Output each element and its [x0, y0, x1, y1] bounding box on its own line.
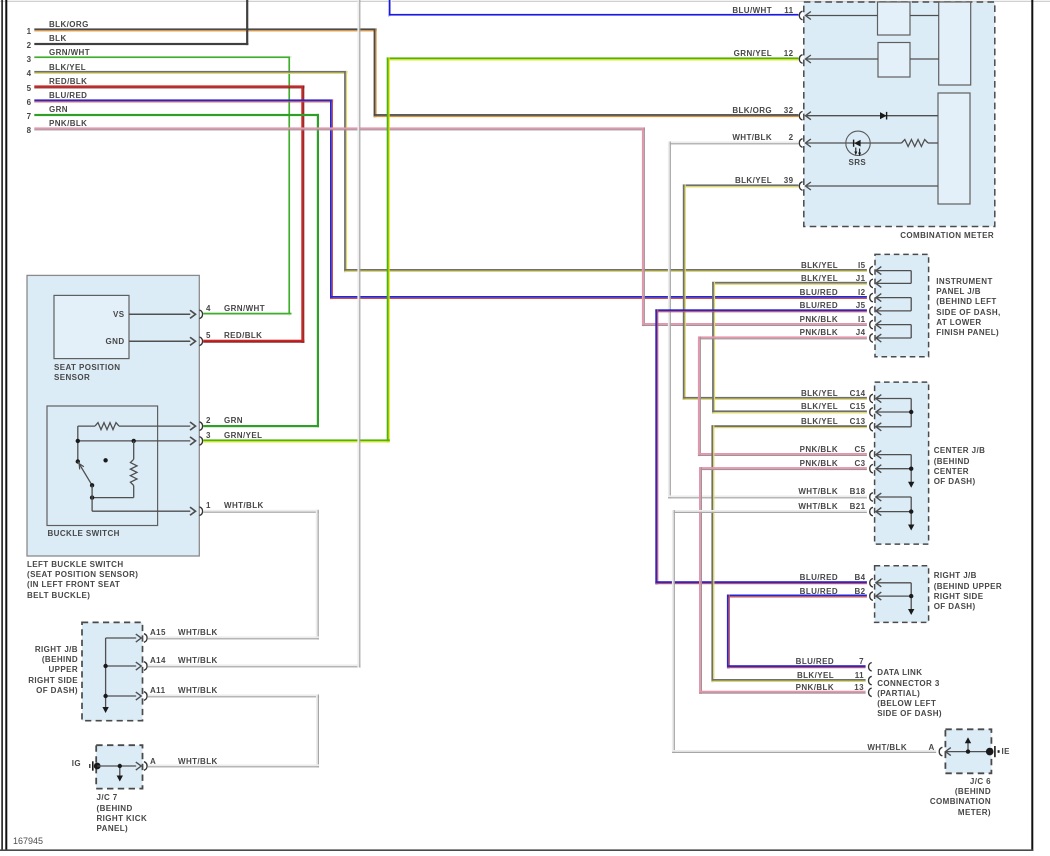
label left box pin 2 number — [206, 416, 211, 425]
CM resistor on pin 2 line — [902, 140, 929, 147]
label CJB pin C5 color — [800, 445, 838, 454]
label left box pin 3 color — [224, 431, 262, 440]
connector pin CM 32 — [799, 111, 811, 120]
connector pin IPJB J4 — [870, 334, 882, 343]
connector pin IPJB J5 — [870, 307, 882, 316]
CJB internal bracket B18-B21 with ground arrow — [876, 497, 915, 531]
connector pin CM 11 — [799, 11, 811, 20]
CM pin 2 internal line right of resistor — [928, 142, 938, 144]
wire BLK/YEL CJB C15 lead horizontal — [712, 410, 867, 413]
label wire 5 color — [49, 77, 87, 86]
CM diode on pin 32 line — [880, 112, 887, 120]
label left block name line 3 — [27, 580, 120, 589]
wire BLK #2 to page top vertical — [246, 0, 248, 45]
wire BLK/YEL #4 horizontal — [34, 71, 347, 74]
connector pin IPJB I5 — [870, 266, 882, 275]
label SEAT POSITION — [54, 363, 120, 372]
connector pin buckle 3 — [190, 437, 202, 446]
label J/C7 name line 3 — [97, 814, 148, 823]
label CM pin 32 color — [732, 106, 772, 115]
wire GRN/WHT #3 horizontal — [34, 56, 291, 59]
label CM pin 2 color — [732, 133, 772, 142]
label CJB pin C14 — [850, 389, 866, 398]
label left box pin 1 color — [224, 501, 264, 510]
label wire 7 color — [49, 105, 68, 114]
label CM pin 12 color — [734, 49, 772, 58]
label CJB name line 3 — [934, 467, 969, 476]
wire RED/BLK #5 to SPS pin5 vertical — [301, 86, 304, 343]
wire WHT/BLK buckle1 to A15 vertical — [316, 510, 319, 640]
wire BLU/WHT CM pin 11 lead horizontal — [389, 14, 799, 17]
connector pin IPJB J1 — [870, 279, 882, 288]
label left box pin 5 number — [206, 331, 211, 340]
CJB junction dot B21 — [909, 509, 913, 513]
label CJB pin B18 — [850, 487, 866, 496]
CM pin 39 internal line — [806, 185, 939, 187]
IPJB internal bracket I2-J5 — [876, 298, 912, 311]
page left border outer line — [5, 0, 7, 851]
label wire 8 number — [27, 126, 32, 135]
wire PNK/BLK IPJB I1 lead horizontal — [642, 323, 867, 326]
label J/C6 pin A color — [867, 743, 907, 752]
label BUCKLE SWITCH — [48, 529, 120, 538]
label J/C6 name line 1 — [970, 777, 991, 786]
label RJB-L pin A11 color — [178, 686, 218, 695]
wire BLK/YEL CJB C13 lead horizontal — [712, 425, 867, 428]
RJB-R internal bracket B4-B2 with ground arrow — [876, 583, 915, 615]
wire WHT/BLK CJB B18 lead horizontal — [668, 495, 867, 498]
buckle switch junction dot left — [76, 439, 80, 443]
label wire 3 color — [49, 48, 90, 57]
connector pin DLC3 7 — [869, 663, 872, 672]
connector pin CJB C14 — [870, 394, 882, 403]
center J/B block — [875, 382, 929, 544]
label CM pin 11 number — [784, 6, 793, 15]
label left box pin 4 color — [224, 304, 265, 313]
wire WHT/BLK CM2 to CJB B18 vertical — [668, 142, 671, 499]
label IPJB pin I1 — [858, 315, 865, 324]
J/C 7 block — [96, 745, 142, 788]
buckle switch lower junction dot — [90, 495, 94, 499]
wire BLK/YEL #4 to IPJB I5 vertical — [344, 71, 347, 272]
wire GRN/WHT #3 to SPS pin4 vertical — [288, 57, 291, 316]
label CM pin 32 number — [784, 106, 794, 115]
label CJB name line 4 — [934, 477, 976, 486]
J/C6 internal line with up arrow — [945, 737, 989, 751]
label COMBINATION METER — [900, 231, 994, 240]
RJB-L pin A15 arc — [144, 634, 147, 643]
right J/B block (right side) — [875, 566, 929, 623]
buckle switch box — [47, 406, 158, 526]
label IPJB pin I2 color — [800, 288, 838, 297]
label CM pin 39 number — [784, 176, 794, 185]
CM internal rect upper small — [878, 2, 911, 35]
label DLC3 name line 3 — [877, 689, 920, 698]
connector pin CM 39 — [799, 182, 811, 191]
seat position sensor box — [54, 295, 129, 358]
connector pin buckle 2 — [190, 422, 202, 431]
connector pin SPS 4 — [190, 310, 202, 319]
label J/C7 pin A color — [178, 757, 218, 766]
wire PNK/BLK IPJB J4 lead horizontal — [698, 336, 867, 339]
CM pin 12 internal line left — [806, 58, 879, 60]
SPS VS output line with arrow — [129, 310, 195, 318]
CM pin 12 internal line right — [910, 58, 939, 60]
label CM pin 11 color — [732, 6, 772, 15]
wire BLK/ORG #1 to CM32 horizontal — [34, 28, 376, 31]
connector pin J/C6 A — [939, 747, 951, 756]
connector pin DLC3 13 — [869, 688, 872, 697]
wire WHT/BLK RJB-L A11 lead horizontal — [148, 694, 319, 697]
connector pin RJB-R B4 — [870, 579, 882, 588]
label RJB-L name line 2 — [42, 655, 78, 664]
CM pin 11 internal line right — [910, 15, 939, 17]
label wire 3 number — [27, 55, 32, 64]
label wire 2 color — [49, 34, 67, 43]
label wire 2 number — [27, 41, 32, 50]
J/C6 junction dot — [966, 749, 970, 753]
buckle switch blade lower dot — [90, 483, 94, 487]
wire RED/BLK #5 horizontal — [34, 85, 304, 88]
wire BLK/YEL CJB C14 lead horizontal — [683, 397, 867, 400]
J/C7 IG power symbol — [90, 761, 101, 770]
connector pin SPS 5 — [190, 337, 202, 346]
CM pin 32 internal line — [806, 115, 939, 117]
wire PNK/BLK DLC3 pin 13 lead horizontal — [699, 691, 866, 694]
wire PNK/BLK C3 to DLC3 13 vertical — [699, 467, 702, 694]
label IG net — [72, 759, 81, 768]
label GND — [106, 337, 125, 346]
label DLC3 name line 5 — [877, 709, 942, 718]
label RJB-L pin A14 — [150, 656, 166, 665]
buckle switch left vertical — [77, 426, 79, 461]
label left box pin 5 color — [224, 331, 262, 340]
wire RED/BLK SPS pin 5 lead horizontal — [203, 340, 304, 343]
label CJB pin C13 color — [801, 417, 838, 426]
buckle switch pin1 line — [92, 485, 195, 515]
label wire 6 color — [49, 91, 87, 100]
wire WHT/BLK CJB B21 lead horizontal — [672, 510, 867, 513]
label CJB pin C15 color — [801, 402, 838, 411]
label IPJB name line 1 — [936, 277, 992, 286]
CM pin 2 internal line left of resistor — [806, 142, 902, 144]
label J/C6 name line 3 — [930, 797, 991, 806]
wire PNK/BLK CJB C3 lead horizontal — [699, 467, 867, 470]
wire BLU/RED #6 to IPJB I2 vertical — [330, 100, 333, 300]
label RJB-L name line 3 — [48, 665, 78, 674]
label IPJB pin I2 — [858, 288, 865, 297]
label J/C6 name line 2 — [955, 787, 991, 796]
wire GRN buckle pin 2 lead horizontal — [203, 425, 319, 427]
wire BLK/YEL CM39 to CJB C14 vertical — [683, 185, 686, 401]
wire BLU/RED J5 to RJB-R B4 vertical — [655, 309, 658, 584]
wire BLK/YEL IPJB I5 lead horizontal — [344, 269, 867, 272]
wire BLU/WHT CM pin 11 to page top vertical — [389, 0, 392, 17]
wire WHT/BLK J/C7 pin A lead horizontal — [148, 764, 319, 767]
connector pin CJB C15 — [870, 408, 882, 417]
label VS — [113, 310, 124, 319]
RJB-R junction dot B2 — [909, 594, 913, 598]
wire BLK/YEL IPJB J1 lead horizontal — [712, 282, 867, 285]
label CM pin 39 color — [735, 176, 772, 185]
label IPJB name line 6 — [936, 328, 999, 337]
IPJB internal bracket I5-J1 — [876, 271, 912, 284]
CM internal rect lower small — [878, 43, 910, 78]
label J/C7 name line 4 — [97, 824, 129, 833]
wire WHT/BLK B21 to J/C6 vertical — [672, 510, 675, 753]
label CJB pin C3 — [854, 459, 865, 468]
label IPJB pin I1 color — [800, 315, 838, 324]
wire WHT/BLK CM pin 2 lead horizontal — [668, 141, 799, 144]
label left block name line 4 — [27, 591, 90, 600]
label IPJB pin I5 color — [801, 261, 838, 270]
label DLC3 pin 13 — [854, 683, 864, 692]
label RJB-R pin B4 color — [800, 573, 838, 582]
label CJB pin C15 — [850, 402, 866, 411]
wire PNK/BLK #8 to IPJB I1 vertical — [642, 128, 645, 327]
label RJB-R name line 3 — [934, 592, 984, 601]
wire GRN #7 horizontal — [34, 114, 319, 116]
label wire 1 number — [27, 27, 32, 36]
label RJB-R name line 4 — [934, 602, 976, 611]
label RJB-R name line 2 — [934, 582, 1002, 591]
wire PNK/BLK #8 horizontal — [34, 127, 645, 130]
wire BLK/YEL J1 to C15 vertical — [712, 282, 715, 414]
J/C6 IE power symbol — [986, 746, 1000, 757]
RJB-L internal bus with ground arrow — [102, 634, 141, 713]
label wire 5 number — [27, 84, 32, 93]
wire BLU/RED RJB-R B4 lead horizontal — [655, 581, 867, 584]
SPS GND output line with arrow — [129, 337, 195, 345]
combination meter block — [804, 2, 995, 227]
label CJB pin B18 color — [798, 487, 838, 496]
wire GRN/YEL CM12 to buckle pin3 vertical — [387, 58, 390, 443]
label IPJB name line 4 — [936, 308, 1000, 317]
label DLC3 pin 13 color — [796, 683, 834, 692]
J/C7 internal line with ground arrow — [97, 762, 141, 782]
label DLC3 name line 1 — [877, 668, 922, 677]
label DLC3 pin 7 — [859, 657, 864, 666]
page right border line — [1031, 0, 1033, 851]
wire WHT/BLK RJB-L A15 lead horizontal — [148, 636, 319, 639]
IPJB internal bracket I1-J4 — [876, 325, 912, 338]
label IPJB pin J5 color — [800, 301, 838, 310]
label CM pin 12 number — [784, 49, 794, 58]
label IPJB pin J1 — [856, 274, 866, 283]
CJB junction dot C3 — [909, 467, 913, 471]
wire BLU/RED RJB-R B2 lead horizontal — [727, 595, 867, 598]
RJB-L pin A14 arc — [144, 662, 147, 671]
buckle switch movable blade with arrow — [78, 462, 92, 486]
label CJB pin C13 — [850, 417, 866, 426]
label RJB-L pin A15 — [150, 628, 166, 637]
buckle switch resistor branch — [92, 441, 137, 498]
label left block name line 1 — [27, 560, 124, 569]
connector pin RJB-R B2 — [870, 592, 882, 601]
label left box pin 3 number — [206, 431, 211, 440]
label DLC3 name line 4 — [877, 699, 936, 708]
wire PNK/BLK CJB C5 lead horizontal — [698, 453, 867, 456]
label IPJB pin J5 — [856, 301, 866, 310]
label DLC3 pin 11 — [855, 671, 864, 680]
right J/B block (left side) — [82, 622, 143, 720]
CM internal tall rect lower — [938, 93, 970, 204]
label CJB pin B21 — [850, 502, 866, 511]
label wire 4 number — [27, 69, 32, 78]
label CJB pin C5 — [854, 445, 865, 454]
wire BLK/YEL DLC3 pin 11 lead horizontal — [712, 679, 866, 682]
label RJB-L name line 1 — [35, 645, 78, 654]
buckle switch pin2 line with resistor — [78, 422, 196, 430]
label SENSOR — [54, 373, 90, 382]
wire BLK/ORG CM pin 32 lead horizontal — [374, 114, 799, 117]
label wire 8 color — [49, 119, 87, 128]
label left box pin 4 number — [206, 304, 211, 313]
label RJB-L pin A15 color — [178, 628, 218, 637]
RJB-L pin A11 arc — [144, 692, 147, 701]
wire BLK #2 horizontal — [34, 43, 248, 45]
CJB internal bracket C5-C3 with ground arrow — [876, 455, 915, 488]
CM internal tall rect upper — [939, 2, 971, 85]
label wire 4 color — [49, 63, 86, 72]
wire GRN/WHT SPS pin 4 lead horizontal — [203, 313, 291, 316]
wire WHT/BLK buckle pin 1 lead horizontal — [203, 510, 319, 513]
label IPJB pin J1 color — [801, 274, 838, 283]
wire GRN/YEL CM pin 12 lead horizontal — [387, 57, 799, 60]
label J/C6 name line 4 — [958, 808, 991, 817]
connector pin CM 2 — [799, 139, 811, 148]
connector pin CJB B18 — [870, 493, 882, 502]
CJB junction dot C15 — [909, 410, 913, 414]
label RJB-R pin B4 — [854, 573, 865, 582]
label wire 6 number — [27, 98, 32, 107]
wire WHT/BLK A14 to page top vertical — [357, 0, 360, 668]
CM SRS LED diode symbol — [854, 140, 861, 147]
RJB-L junction dot A11 — [103, 694, 107, 698]
J/C 6 block — [945, 729, 991, 773]
page left border inner line — [1, 0, 3, 851]
label RJB-L pin A14 color — [178, 656, 218, 665]
label CJB pin C3 color — [800, 459, 838, 468]
label CM pin 2 number — [789, 133, 794, 142]
label left block name line 2 — [27, 570, 138, 579]
connector pin buckle 1 — [190, 507, 202, 516]
J/C7 junction dot — [118, 764, 122, 768]
label RJB-L name line 4 — [28, 676, 78, 685]
label IPJB pin J4 — [856, 328, 866, 337]
label CJB name line 1 — [934, 446, 986, 455]
left buckle switch block — [27, 275, 199, 556]
wire GRN/YEL buckle pin 3 lead horizontal — [203, 439, 390, 442]
label IE net — [1002, 747, 1010, 756]
label left box pin 2 color — [224, 416, 243, 425]
CM SRS indicator LED circle — [846, 131, 870, 155]
connector pin CJB C3 — [870, 464, 882, 473]
wire BLK/YEL C13 to DLC3 11 vertical — [711, 425, 714, 682]
connector pin CJB B21 — [870, 507, 882, 516]
label wire 1 color — [49, 20, 89, 29]
label CJB pin C14 color — [801, 389, 838, 398]
buckle switch open contact dot — [103, 458, 107, 462]
connector pin CM 12 — [799, 55, 811, 64]
connector pin CJB C13 — [870, 423, 882, 432]
label IPJB name line 2 — [936, 287, 981, 296]
RJB-L junction dot A14 — [103, 664, 107, 668]
wire BLU/RED #6 horizontal — [34, 99, 333, 102]
page top border line — [0, 0, 1050, 2]
label RJB-L pin A11 — [150, 686, 165, 695]
CM pin 11 internal line left — [806, 15, 878, 17]
wire BLU/RED IPJB J5 lead horizontal — [655, 309, 867, 312]
page bottom border line — [0, 849, 1033, 851]
label SRS — [849, 158, 867, 167]
label J/C7 name line 1 — [97, 793, 118, 802]
CM SRS LED emission arrows — [854, 148, 861, 157]
J/C7 pin A arc — [144, 762, 147, 771]
label left box pin 1 number — [206, 501, 211, 510]
connector pin CJB C5 — [870, 450, 882, 459]
label J/C6 pin A — [929, 743, 935, 752]
label RJB-R name line 1 — [934, 571, 977, 580]
label RJB-R pin B2 color — [800, 587, 838, 596]
label IPJB name line 5 — [936, 318, 981, 327]
wire BLK/YEL CM pin 39 lead horizontal — [683, 184, 799, 187]
label RJB-L name line 5 — [36, 686, 78, 695]
wire WHT/BLK J/C6 pin A lead horizontal — [672, 750, 936, 753]
wire BLU/RED IPJB I2 lead horizontal — [330, 296, 867, 299]
label J/C7 name line 2 — [97, 804, 133, 813]
label CJB pin B21 color — [798, 502, 838, 511]
wire PNK/BLK J4 to CJB C5 vertical — [698, 337, 701, 457]
wire BLU/RED B2 to DLC3 7 vertical — [727, 595, 730, 669]
label wire 7 number — [27, 112, 32, 121]
label IPJB pin J4 color — [800, 328, 838, 337]
connector pin DLC3 11 — [869, 676, 872, 685]
connector pin IPJB I1 — [870, 320, 882, 329]
label RJB-R pin B2 — [854, 587, 865, 596]
CJB internal bracket C14-C15-C13 — [876, 399, 912, 427]
wire WHT/BLK RJB-L A14 lead horizontal — [148, 664, 361, 667]
label DLC3 name line 2 — [877, 679, 939, 688]
buckle switch pin3 line — [78, 437, 196, 445]
buckle switch pivot dot — [76, 459, 80, 463]
label diagram number 167945 — [13, 836, 43, 846]
wire WHT/BLK A11 to J/C7 A vertical — [316, 695, 319, 768]
label IPJB pin I5 — [858, 261, 865, 270]
wire GRN #7 to buckle pin2 vertical — [317, 114, 319, 427]
label DLC3 pin 7 color — [796, 657, 834, 666]
label J/C7 pin A — [150, 757, 156, 766]
buckle switch junction dot right — [132, 439, 136, 443]
wire BLK/ORG #1 to CM32 vertical — [374, 29, 377, 118]
instrument panel J/B block — [875, 254, 929, 356]
wire BLU/RED DLC3 pin 7 lead horizontal — [727, 665, 866, 668]
label CJB name line 2 — [934, 457, 970, 466]
connector pin IPJB I2 — [870, 293, 882, 302]
label DLC3 pin 11 color — [797, 671, 834, 680]
label IPJB name line 3 — [936, 297, 996, 306]
